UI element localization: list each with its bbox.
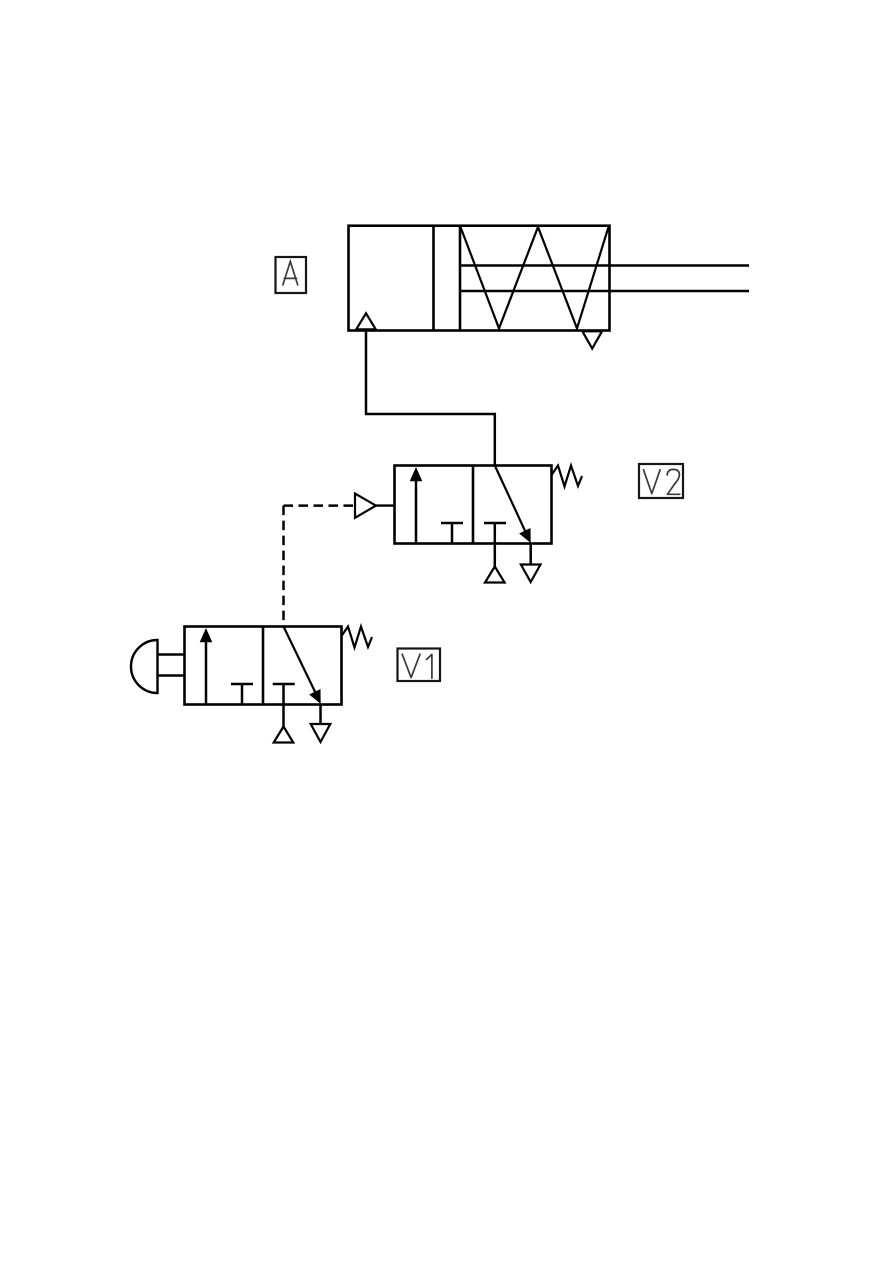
valve V1 left position flow arrow [200,628,213,705]
valve V1 right position flow path with arrow [284,627,321,705]
valve V2 right position flow path with arrow [495,466,531,544]
cylinder A piston left face [432,226,435,331]
valve V2 right position blocked port [484,523,506,544]
pilot wire V1 to V2 vertical dashed segment [282,506,285,627]
valve V1 left position blocked port [231,684,253,705]
valve V1 exhaust port triangle [311,705,331,743]
label text V2 [644,469,680,494]
valve V1 position divider [262,627,265,705]
valve V2 return spring [552,466,583,487]
valve V2 position divider [472,466,475,544]
valve V1 [131,627,372,743]
cylinder A piston rod lower line [460,290,749,292]
valve V1 push button actuator [131,640,185,693]
valve V1 supply port triangle [274,705,294,743]
label text A [283,262,298,285]
label box V1 [398,649,441,682]
valve V2 exhaust port triangle [521,544,541,583]
valve V1 right position blocked port [273,684,295,705]
cylinder A return spring [461,227,609,328]
valve V1 return spring [342,627,373,648]
valve V2 [355,466,582,583]
label box V2 [639,464,683,498]
label box A [276,257,307,293]
cylinder A body [349,226,610,331]
valve V2 left position flow arrow [410,467,423,544]
valve V2 pilot actuator triangle [355,494,395,518]
cylinder A piston right face [459,226,462,331]
label text V1 [402,654,432,678]
valve V2 supply port triangle [485,544,505,583]
cylinder A piston rod upper line [460,264,749,266]
valve V2 left position blocked port [441,523,463,544]
valve V1 body [185,627,342,705]
wire cylinder A to valve V2 working port [366,331,495,466]
cylinder A vent triangle [582,331,602,348]
cylinder A port triangle [356,313,376,329]
pilot wire V1 to V2 horizontal dashed segment [284,504,356,507]
valve V2 body [395,466,552,544]
